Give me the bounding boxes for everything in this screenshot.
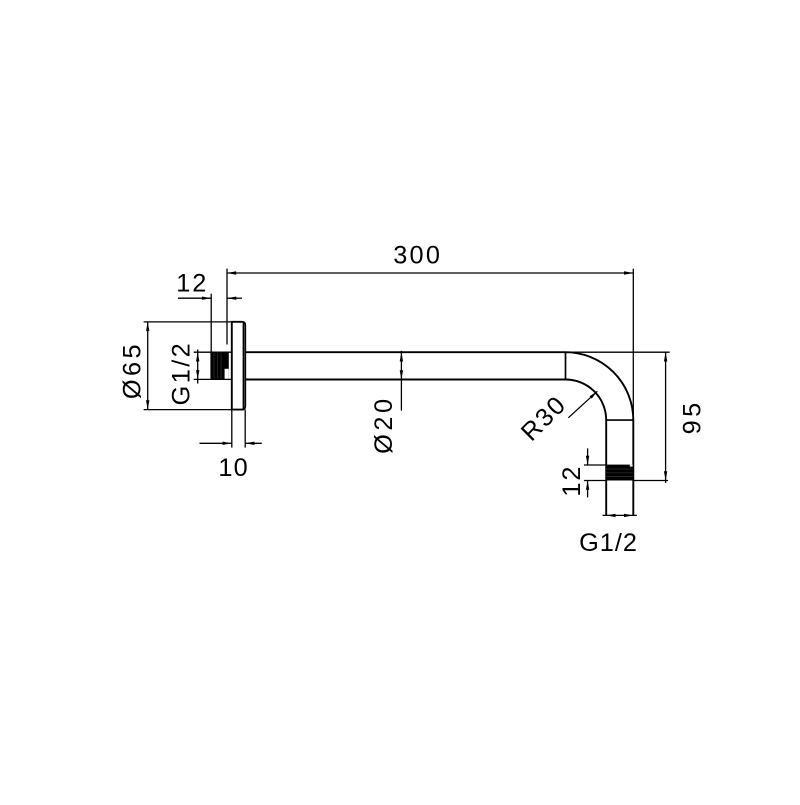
dimension 12 outlet lower arrowhead [586, 481, 589, 490]
G1/2 outlet right arrowhead [624, 514, 633, 517]
extension line pipe top to 95 dim [566, 351, 670, 353]
dimension Ø20 bottom arrowhead [400, 370, 403, 379]
svg-text:10: 10 [218, 454, 249, 482]
R30 leader line [568, 391, 597, 418]
vertical outlet pipe right edge [632, 420, 634, 515]
dimension Ø20 line [400, 351, 402, 411]
extension line outlet thread bottom [584, 480, 606, 482]
dimension 10 left tail [200, 442, 232, 444]
G1/2 wall thread bottom arrowhead [196, 370, 199, 379]
dimension 12 outlet lower tail [587, 481, 589, 498]
dimension 12 right tail [227, 297, 242, 299]
dimension 12 (wall thread) left tail [178, 297, 211, 299]
horizontal arm pipe top edge [245, 351, 565, 353]
flange fillet tangent inner line [242, 323, 244, 409]
dimension 12 outlet upper arrowhead [586, 456, 589, 465]
extension line thread top [194, 351, 232, 353]
dimension 12 right arrowhead [227, 297, 236, 300]
dimension Ø65 bottom arrowhead [146, 400, 149, 409]
horizontal arm pipe bottom edge [245, 379, 565, 381]
R30 leader arrowhead [590, 391, 598, 398]
G1/2 wall thread top arrowhead [196, 352, 199, 361]
extension line outlet thread top [584, 464, 606, 466]
outlet thread G1/2 block [606, 465, 633, 481]
dimension 10 left arrowhead [223, 442, 232, 445]
extension line flange left edge [231, 410, 233, 448]
dimension G1/2 wall thread line [197, 350, 199, 384]
dimension Ø20 top arrowhead [400, 352, 403, 361]
extension line flange bottom [144, 409, 232, 411]
dimension 300 right arrowhead [624, 271, 633, 274]
extension line flange top [144, 321, 232, 323]
wall flange (escutcheon) outline [232, 322, 245, 410]
svg-text:Ø65: Ø65 [119, 341, 147, 399]
svg-text:G1/2: G1/2 [167, 341, 195, 405]
dimension 10 right arrowhead [245, 442, 254, 445]
bend tangent line [565, 352, 567, 379]
dimension 95 line [665, 352, 667, 483]
dimension Ø65 top arrowhead [146, 322, 149, 331]
dimension 95 top arrowhead [664, 352, 667, 361]
svg-text:95: 95 [678, 399, 706, 434]
dimension Ø65 line [147, 322, 149, 410]
dimension 12 left arrowhead [202, 297, 211, 300]
extension line flange right edge [244, 410, 246, 448]
svg-text:G1/2: G1/2 [579, 529, 638, 557]
dimension 10 right tail [245, 442, 262, 444]
bend end tangent line [606, 419, 633, 421]
extension line thread left edge [210, 294, 212, 353]
extension line outlet thread bottom to 95 dim [633, 480, 668, 482]
dimension 300 left arrowhead [227, 271, 236, 274]
G1/2 outlet left arrowhead [606, 514, 615, 517]
dimension 95 bottom arrowhead [664, 471, 667, 480]
bend outer arc [566, 352, 634, 420]
vertical outlet pipe left edge [605, 420, 607, 515]
svg-text:300: 300 [393, 242, 442, 270]
svg-text:12: 12 [558, 465, 586, 497]
dimension G1/2 outlet line (pipe mouth) [603, 514, 637, 516]
dimension 12 outlet thread upper tail [587, 448, 589, 465]
svg-text:Ø20: Ø20 [370, 395, 398, 454]
dimension 300 line [227, 272, 633, 274]
bend inner arc [566, 379, 607, 420]
extension line thread bottom [194, 378, 232, 380]
extension line thread right edge [226, 269, 228, 345]
svg-text:12: 12 [176, 269, 208, 297]
extension line pipe right edge up to 300 dim [632, 269, 634, 420]
wall thread G1/2 block [210, 353, 228, 379]
